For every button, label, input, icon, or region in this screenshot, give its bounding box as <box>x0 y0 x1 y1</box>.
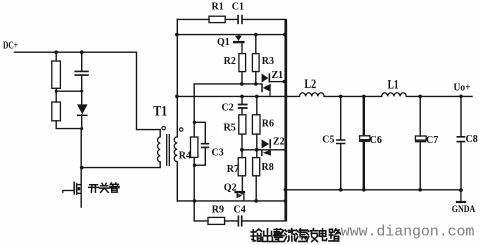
svg-text:L2: L2 <box>304 76 316 91</box>
resistor R7 <box>238 158 245 176</box>
transformer core <box>167 134 170 166</box>
wire C7 leads <box>419 96 421 189</box>
resistor R9 <box>208 217 225 224</box>
svg-text:R5: R5 <box>224 123 236 134</box>
svg-text:Uo+: Uo+ <box>454 83 471 94</box>
wire right thick rail <box>284 19 287 221</box>
wire C8 leads <box>460 96 462 190</box>
transformer polarity dot primary <box>162 126 165 129</box>
svg-text:C6: C6 <box>370 135 382 146</box>
wire C3 branch <box>194 122 205 165</box>
capacitor (left snubber) <box>74 71 88 75</box>
resistor R8 <box>253 158 260 176</box>
svg-text:Q1: Q1 <box>217 37 230 48</box>
wire R6 bottom R8 top <box>256 134 258 158</box>
svg-text:C2: C2 <box>222 102 234 113</box>
svg-text:R7: R7 <box>227 164 239 175</box>
capacitor C3 <box>201 144 209 148</box>
svg-text:T1: T1 <box>153 104 167 120</box>
svg-text:R8: R8 <box>262 162 274 173</box>
wire cap branch <box>81 52 83 104</box>
transformer T1 secondary winding <box>174 137 177 162</box>
滤 <box>296 229 307 242</box>
svg-text:C8: C8 <box>466 134 478 145</box>
wire inner rail R4 column <box>193 122 195 221</box>
wire left divider top lead <box>55 52 57 61</box>
transformer polarity dot secondary <box>180 128 183 131</box>
svg-text:R2: R2 <box>224 56 236 67</box>
capacitor C8 <box>457 137 466 142</box>
svg-text:C5: C5 <box>322 135 334 146</box>
流 <box>285 229 296 242</box>
resistor R6 <box>252 115 260 134</box>
resistor (upper left divider) <box>52 61 61 88</box>
输 <box>251 229 261 241</box>
wire R3 bottom lead <box>255 72 257 84</box>
svg-text:Z1: Z1 <box>272 70 284 81</box>
wire switch rail <box>80 129 82 207</box>
svg-text:www.diangon.com: www.diangon.com <box>341 223 475 240</box>
wire left inner rail <box>176 19 178 201</box>
wire R9 C4 row <box>194 220 286 222</box>
zener Z2 <box>261 139 271 156</box>
inductor L1 <box>382 93 407 97</box>
svg-text:R9: R9 <box>212 205 224 216</box>
capacitor C2 <box>238 105 248 109</box>
diode (left snubber) <box>77 104 88 116</box>
路 <box>329 229 340 241</box>
wire Q1 collector row <box>177 34 285 36</box>
wire R5 to R7 column <box>241 134 243 158</box>
svg-text:C7: C7 <box>426 135 438 146</box>
resistor R1 <box>209 16 225 22</box>
svg-text:Z2: Z2 <box>273 136 285 147</box>
resistor R2 <box>239 54 246 72</box>
wire R8 bottom lead <box>255 176 257 201</box>
svg-text:R3: R3 <box>262 56 274 67</box>
wire main output row <box>177 95 472 97</box>
resistor R4 <box>191 137 198 157</box>
capacitor C4 <box>238 215 243 226</box>
svg-text:Q2: Q2 <box>224 183 237 194</box>
svg-text:C3: C3 <box>212 148 224 159</box>
resistor R3 <box>252 54 259 72</box>
transformer T1 primary winding <box>158 137 161 162</box>
wire Q2 emitter row <box>178 200 286 202</box>
wire C6 thick leads <box>363 96 365 189</box>
wire top snubber R1 C1 <box>177 18 285 20</box>
capacitor C7 <box>415 136 426 140</box>
label 开关管 (drawn strokes) <box>89 183 119 192</box>
wire divider middle <box>56 88 81 102</box>
wire primary bottom to rail <box>82 162 160 168</box>
zener Z1 <box>261 73 284 96</box>
wire primary top lead <box>159 130 161 137</box>
wire divider bottom <box>56 121 81 129</box>
出 <box>263 229 273 242</box>
整 <box>273 229 284 242</box>
wire R6 top lead <box>256 96 258 114</box>
svg-text:R4: R4 <box>179 151 191 162</box>
svg-text:R1: R1 <box>212 2 224 13</box>
svg-text:L1: L1 <box>388 76 399 91</box>
wire diode to rail <box>81 115 83 129</box>
wire R3 top lead <box>255 35 257 54</box>
wire C5 leads <box>340 96 342 189</box>
resistor R5 <box>239 115 246 134</box>
波 <box>307 229 318 242</box>
wire ground row <box>286 189 461 191</box>
wire R7 bottom to Q2 <box>241 176 243 191</box>
wire zener Z2 row <box>242 149 285 151</box>
transistor switch (MOSFET) <box>63 182 81 195</box>
wire C2 leads <box>241 96 243 114</box>
label 输出整流滤波电路 (drawn strokes) <box>251 229 340 242</box>
svg-text:DC+: DC+ <box>3 40 18 51</box>
wire R2 R3 base row <box>194 84 261 122</box>
capacitor C6 <box>360 136 370 140</box>
svg-text:C4: C4 <box>234 205 246 216</box>
svg-text:C1: C1 <box>232 2 244 13</box>
resistor (lower left divider) <box>52 102 61 121</box>
电 <box>319 229 326 241</box>
transistor Q2 <box>234 191 245 201</box>
capacitor C1 <box>237 15 243 24</box>
ground GNDA <box>460 190 462 201</box>
svg-text:GNDA: GNDA <box>452 205 476 215</box>
capacitor C5 <box>336 140 345 144</box>
transistor Q1 <box>233 35 245 54</box>
inductor L2 <box>300 93 325 97</box>
svg-text:R6: R6 <box>262 118 274 129</box>
wire R2 bottom lead <box>241 72 243 84</box>
wire DC+ top rail <box>15 52 161 129</box>
